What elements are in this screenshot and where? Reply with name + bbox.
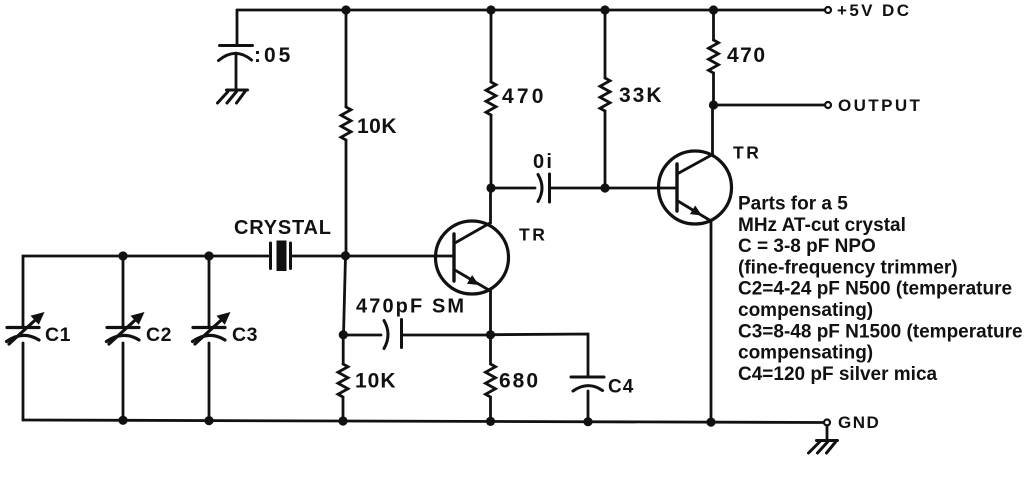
wire feedback node to R 10K bottom	[342, 335, 345, 364]
svg-text:(fine-frequency trimmer): (fine-frequency trimmer)	[738, 257, 958, 278]
wire feedback node to cap	[344, 334, 382, 337]
wire collector node to Q1	[489, 188, 492, 223]
wire top supply rail	[237, 9, 825, 12]
svg-text:33K: 33K	[619, 84, 664, 107]
svg-text:10K: 10K	[355, 370, 397, 393]
svg-text::05: :05	[254, 44, 293, 67]
wire bottom ground rail	[23, 420, 824, 423]
node R680 rail	[486, 417, 495, 426]
wire rail to R 470 right	[712, 10, 715, 40]
wire C2 column	[122, 256, 125, 326]
wire Q2 emitter to bottom rail	[710, 221, 713, 422]
node Q2 emitter rail	[706, 418, 715, 427]
terminal +5V DC	[825, 7, 831, 13]
node C2 bottom	[118, 416, 127, 425]
svg-text:C1: C1	[45, 324, 71, 346]
resistor R 470 mid	[486, 82, 496, 115]
node C2 top	[118, 251, 127, 260]
capacitor C2 (variable)	[107, 318, 140, 345]
svg-text:10K: 10K	[357, 115, 397, 138]
wire R680 to bottom rail	[489, 397, 492, 421]
resistor R 470 right	[709, 40, 719, 73]
terminal GND	[824, 420, 830, 426]
wire collector node to cap	[491, 187, 535, 190]
svg-text:MHz AT-cut crystal: MHz AT-cut crystal	[738, 215, 906, 236]
wire C3 column	[208, 256, 211, 326]
wire 33K to base line	[604, 111, 607, 188]
wire R1 to crystal node	[345, 140, 348, 256]
svg-text:compensating): compensating)	[738, 343, 873, 364]
node rail-R1	[341, 5, 350, 14]
svg-text:C2: C2	[146, 324, 172, 346]
wire R to output node	[712, 73, 715, 105]
wire cap to Q2 base	[551, 187, 677, 190]
resistor R 680	[486, 364, 496, 397]
resistor R 10K bottom	[338, 364, 348, 397]
svg-text:C3=8-48 pF N1500 (temperature: C3=8-48 pF N1500 (temperature	[738, 321, 1023, 342]
node crystal junction	[341, 251, 350, 260]
node rail-R470right	[709, 5, 718, 14]
wire drop to bypass cap	[236, 10, 239, 44]
wire output tap	[714, 104, 826, 107]
svg-text:470: 470	[727, 44, 767, 67]
svg-text:470pF SM: 470pF SM	[356, 296, 466, 318]
node feedback left	[339, 330, 348, 339]
svg-text:C = 3-8 pF NPO: C = 3-8 pF NPO	[738, 236, 876, 257]
node C3 top	[204, 251, 213, 260]
capacitor C4	[571, 376, 604, 379]
node C3 bottom	[204, 416, 213, 425]
svg-text:CRYSTAL: CRYSTAL	[234, 217, 332, 239]
node collector Q1	[486, 183, 495, 192]
wire rail to R1	[345, 10, 348, 107]
svg-text:TR: TR	[733, 143, 761, 163]
ground bottom-right	[817, 439, 838, 442]
wire Q1 emitter down	[489, 291, 492, 335]
svg-text:compensating): compensating)	[738, 300, 873, 321]
wire output node to Q2 collector	[711, 105, 714, 155]
svg-text:C2=4-24 pF N500 (temperature: C2=4-24 pF N500 (temperature	[738, 279, 1012, 300]
wire C4 to bottom rail	[587, 391, 590, 422]
wire tank top line	[23, 255, 268, 258]
resistor R 10K top	[341, 107, 351, 140]
wire rail to R 470 mid	[490, 10, 493, 82]
capacitor 470pF SM	[384, 321, 388, 349]
node 33K-base	[600, 183, 609, 192]
svg-text:680: 680	[499, 370, 540, 393]
wire R680 column	[489, 335, 492, 364]
parts list text	[738, 194, 1023, 385]
node output tap	[709, 100, 718, 109]
svg-text:C3: C3	[232, 324, 258, 346]
wire R to collector node	[490, 115, 493, 188]
svg-text:C4=120 pF silver mica: C4=120 pF silver mica	[738, 364, 938, 385]
svg-text:0i: 0i	[533, 151, 554, 173]
terminal OUTPUT	[825, 102, 831, 108]
wire GND drop	[826, 426, 829, 441]
svg-text:C4: C4	[608, 377, 634, 398]
svg-text:Parts for a 5: Parts for a 5	[738, 194, 848, 215]
svg-text:470: 470	[502, 85, 547, 108]
node emitter Q1	[486, 330, 495, 339]
wire left tank column	[22, 256, 25, 326]
node rail-R470mid	[486, 5, 495, 14]
crystal Y1	[269, 243, 272, 269]
capacitor :05	[220, 44, 253, 47]
ground top-left	[227, 89, 248, 92]
wire cap to emitter node	[403, 334, 490, 337]
wire crystal to Q1 base	[293, 255, 454, 258]
node rail-33K	[600, 5, 609, 14]
node R10K bottom rail	[338, 416, 347, 425]
svg-text:OUTPUT: OUTPUT	[838, 96, 922, 115]
node C4 rail	[583, 417, 592, 426]
svg-text:TR: TR	[519, 225, 547, 245]
wire crystal node down to feedback node	[344, 256, 346, 335]
svg-text:GND: GND	[838, 413, 880, 432]
svg-text:+5V DC: +5V DC	[837, 1, 911, 20]
capacitor C3 (variable)	[193, 318, 226, 345]
wire rail to R 33K	[604, 10, 607, 78]
wire R to bottom rail	[342, 397, 345, 421]
resistor R 33K	[600, 78, 610, 111]
capacitor .01 coupling	[538, 175, 542, 202]
transistor Q1	[436, 221, 509, 294]
wire emitter node to C4	[491, 334, 589, 377]
wire cap to ground	[235, 53, 238, 89]
capacitor C1 (variable)	[7, 318, 40, 345]
transistor Q2	[659, 151, 732, 224]
